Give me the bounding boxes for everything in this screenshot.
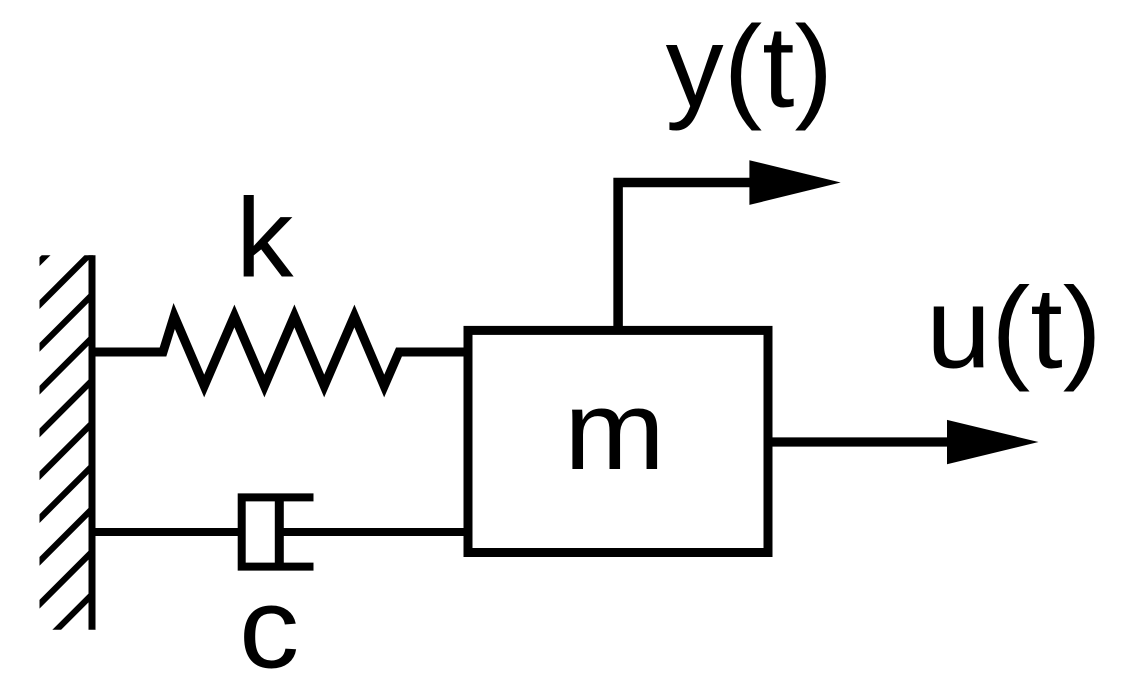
- damper piston plate: [275, 500, 284, 564]
- svg-text:k: k: [236, 175, 295, 300]
- ground wall hatching: [0, 250, 479, 645]
- mass m: [468, 330, 768, 552]
- spring k: [92, 316, 468, 386]
- damper cylinder (cup): [242, 497, 314, 566]
- damper c rod (mass side): [279, 528, 468, 536]
- ground wall line: [89, 255, 96, 630]
- input wire u(t): [770, 437, 955, 446]
- svg-text:u(t): u(t): [926, 264, 1102, 392]
- svg-text:y(t): y(t): [666, 2, 834, 132]
- damper c rod (wall side): [92, 528, 245, 536]
- svg-text:c: c: [239, 564, 299, 691]
- arrowhead u(t): [947, 420, 1039, 464]
- arrowhead y(t): [749, 160, 840, 205]
- svg-text:m: m: [564, 368, 665, 493]
- output wire y(t): [618, 183, 760, 331]
